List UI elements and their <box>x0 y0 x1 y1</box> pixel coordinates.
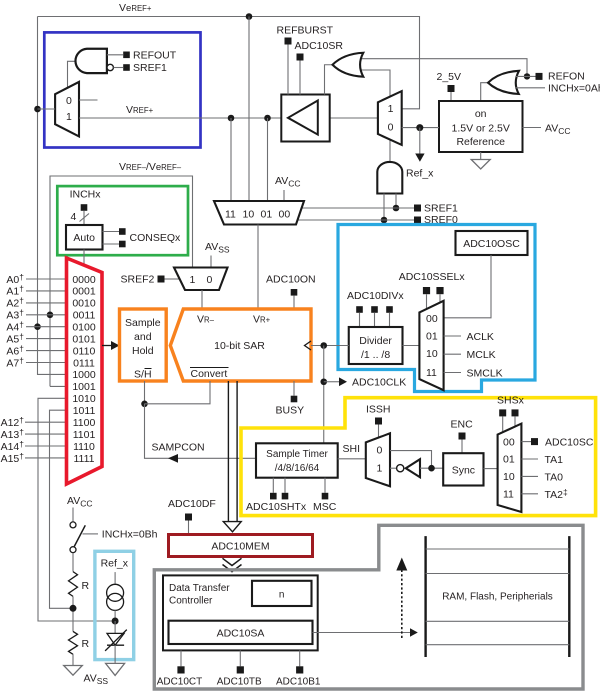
svg-text:SREF1: SREF1 <box>133 62 167 74</box>
pin SREF2 <box>121 274 181 286</box>
label A0-A7 channels <box>6 272 24 370</box>
wire channel 1010 to temp sensor node <box>38 398 115 621</box>
mux M6 clock source <box>419 301 443 390</box>
wire VR- to SAR <box>201 290 203 309</box>
label 4 bus width with slash <box>71 211 90 223</box>
pin SHSx <box>497 395 525 433</box>
wire AVSS stub <box>210 256 212 268</box>
pin CONSEQx <box>103 228 182 247</box>
wire TA1 input <box>521 454 563 466</box>
svg-text:Sample: Sample <box>125 317 161 329</box>
gate U3 OR (buffer enable, left facing) <box>325 53 528 163</box>
clock select box (cyan) <box>338 225 535 392</box>
svg-text:ADC10SC: ADC10SC <box>545 437 594 449</box>
wire channel 1011 to divider node <box>50 410 74 608</box>
wire Auto to input mux <box>83 250 85 267</box>
wire SHI line <box>338 443 366 459</box>
pin ADC10SHTx <box>246 478 307 513</box>
svg-text:1101: 1101 <box>73 429 96 441</box>
wire VeREF+ left rail down to channel 1000 <box>38 17 67 375</box>
pin ADC10SR <box>295 40 344 95</box>
svg-text:SMCLK: SMCLK <box>467 368 503 380</box>
svg-text:TA1: TA1 <box>545 454 564 466</box>
memory bus box (gray) <box>154 525 583 689</box>
wire S/H control stub <box>144 381 146 404</box>
svg-text:1011: 1011 <box>73 405 96 417</box>
node Ref_x tap <box>416 124 423 131</box>
wire rail to mux M1 input <box>38 108 56 110</box>
auto channel select box (green) <box>57 186 188 255</box>
pin ADC10DF <box>168 498 216 535</box>
svg-text:1000: 1000 <box>72 369 96 381</box>
wire VeREF+ top rail <box>38 17 420 109</box>
svg-text:REFON: REFON <box>548 71 585 83</box>
wire mux input 10 <box>248 17 250 202</box>
pin BUSY <box>276 381 305 417</box>
wire TA2 input <box>521 487 568 501</box>
node divider mid junction <box>70 605 77 612</box>
svg-text:Auto: Auto <box>73 232 95 244</box>
svg-text:4: 4 <box>71 211 77 223</box>
svg-text:01: 01 <box>261 209 273 221</box>
mux M7 ISSH invert select <box>366 433 390 486</box>
wire AND input stubs <box>384 194 396 221</box>
wire SAR clock line <box>311 345 349 347</box>
svg-text:ACLK: ACLK <box>467 331 494 343</box>
block ADC10MEM (dark red) <box>169 535 313 557</box>
svg-text:00: 00 <box>426 313 438 325</box>
inverter U6 <box>390 459 443 477</box>
pin 2_5V <box>437 71 462 101</box>
svg-text:ADC10B1: ADC10B1 <box>276 677 321 688</box>
svg-text:1110: 1110 <box>73 441 95 453</box>
pin ADC10DIVx <box>347 290 404 327</box>
wire divider middle <box>72 596 74 631</box>
svg-text:TA0: TA0 <box>545 471 564 483</box>
block sample timer <box>256 443 338 477</box>
svg-text:Ref_x: Ref_x <box>101 558 129 570</box>
wire switch to resistor <box>72 553 74 572</box>
buffer U2 reference buffer <box>281 95 378 142</box>
sample trigger box (yellow) <box>241 398 596 516</box>
pin ENC <box>451 419 474 454</box>
wire DTC dashed up arrow <box>396 558 407 639</box>
wire TA0 input <box>521 471 563 483</box>
svg-text:10: 10 <box>503 471 515 483</box>
svg-text:0100: 0100 <box>72 322 96 334</box>
pin SREF1 (inverted input) <box>107 62 167 74</box>
svg-text:0000: 0000 <box>72 274 96 286</box>
wire VREF-/VeREF- rail <box>50 176 193 386</box>
block data transfer controller <box>163 575 318 650</box>
svg-text:R: R <box>82 580 90 592</box>
svg-text:01: 01 <box>426 331 438 343</box>
svg-text:2_5V: 2_5V <box>437 71 462 83</box>
pin SREF1 <box>302 203 459 215</box>
node ADC10CLK junction <box>320 378 327 385</box>
wire mux M2 input0 from reference <box>402 127 439 129</box>
resistor R1 <box>69 572 90 597</box>
wire conversion data bus to ADC10MEM <box>223 381 241 532</box>
svg-text:R: R <box>82 638 90 650</box>
svg-text:ADC10MEM: ADC10MEM <box>211 541 269 553</box>
mux M8 sample trigger select <box>498 424 522 512</box>
wire A12-A15 input lines <box>25 422 67 458</box>
reference select box (blue) <box>44 32 200 147</box>
pin REFOUT <box>107 49 177 61</box>
node VREF+ to mux 11 <box>228 115 235 122</box>
svg-text:10-bit SAR: 10-bit SAR <box>214 340 265 352</box>
svg-text:10: 10 <box>426 348 438 360</box>
node S/H convert junction <box>141 401 148 408</box>
resistor R2 <box>69 631 90 654</box>
svg-text:0: 0 <box>207 274 213 286</box>
svg-text:INCHx=0Ah: INCHx=0Ah <box>548 83 600 95</box>
gate U5 AND (SREF decode, up facing) <box>377 162 402 194</box>
wire clock down to sample timer <box>323 346 325 444</box>
svg-text:Divider: Divider <box>359 335 392 347</box>
wire SMCLK input <box>444 368 503 380</box>
svg-text:on: on <box>475 108 487 120</box>
svg-text:Sample Timer: Sample Timer <box>266 449 328 460</box>
svg-text:VR+: VR+ <box>253 314 271 326</box>
svg-text:ADC10SHTx: ADC10SHTx <box>246 501 307 513</box>
svg-text:VREF–/VeREF–: VREF–/VeREF– <box>119 161 182 173</box>
node A3 tap on VREF- rail <box>47 312 54 319</box>
svg-text:1: 1 <box>66 111 72 123</box>
svg-text:ADC10TB: ADC10TB <box>217 677 262 688</box>
ground reference box <box>471 152 490 169</box>
svg-text:0101: 0101 <box>72 333 96 345</box>
svg-text:n: n <box>279 590 285 601</box>
pin REFBURST <box>277 25 334 95</box>
svg-text:0011: 0011 <box>73 310 96 322</box>
wire input mux to sample and hold with arrow <box>102 341 120 350</box>
wire AVCC stub to mux 00 <box>283 190 285 201</box>
svg-text:11: 11 <box>426 367 437 379</box>
wire MCLK input <box>444 349 496 361</box>
svg-text:VR–: VR– <box>197 314 215 326</box>
pin ADC10CT <box>157 650 203 687</box>
wire A0-A7 input lines <box>26 279 67 363</box>
block ADC10OSC <box>456 231 528 255</box>
svg-text:MCLK: MCLK <box>467 349 496 361</box>
ground temp sensor <box>106 645 125 675</box>
wire NAND output to mux select <box>68 61 76 88</box>
node SREF0 junction <box>381 217 388 224</box>
svg-text:00: 00 <box>503 436 515 448</box>
svg-text:1010: 1010 <box>72 393 96 405</box>
svg-text:ADC10SSELx: ADC10SSELx <box>399 271 466 283</box>
svg-text:S/H: S/H <box>134 369 152 381</box>
svg-text:1111: 1111 <box>73 453 94 465</box>
ground divider AVSS <box>64 654 83 675</box>
svg-text:1: 1 <box>377 463 383 475</box>
node VeREF+ tap to mux M1 <box>34 106 41 113</box>
node temp sensor junction <box>112 618 119 625</box>
wire ADC10SA to memory bus arrow <box>313 628 418 636</box>
block sample and hold (orange) <box>120 309 167 381</box>
block Auto <box>66 225 103 250</box>
block ADC10SA <box>169 621 313 644</box>
svg-text:0010: 0010 <box>72 298 96 310</box>
node inverter input junction <box>428 465 435 472</box>
svg-text:1: 1 <box>388 103 394 115</box>
node SREF1 junction <box>393 205 400 212</box>
wire mux M1 output 0 stub <box>79 99 98 101</box>
svg-text:SREF1: SREF1 <box>424 203 458 215</box>
svg-text:ADC10DF: ADC10DF <box>168 498 216 510</box>
svg-text:ADC10SR: ADC10SR <box>295 40 344 52</box>
svg-text:1001: 1001 <box>72 381 96 393</box>
svg-text:0001: 0001 <box>72 286 96 298</box>
pin MSC <box>313 478 337 513</box>
svg-text:ISSH: ISSH <box>366 404 391 416</box>
wire mux input 11 <box>230 118 232 201</box>
temp sensor cell box (light blue) <box>95 551 134 659</box>
mux M1 VREF+ select <box>55 82 79 136</box>
svg-text:Hold: Hold <box>132 345 154 357</box>
svg-text:Sync: Sync <box>452 465 475 477</box>
node VREF+ to mux 01 <box>264 115 271 122</box>
switch INCHx=0Bh <box>70 508 158 553</box>
svg-text:SAMPCON: SAMPCON <box>152 442 205 454</box>
svg-text:ADC10DIVx: ADC10DIVx <box>347 290 404 302</box>
svg-text:1100: 1100 <box>73 417 96 429</box>
pin ADC10SSELx <box>399 271 466 309</box>
svg-text:0: 0 <box>66 95 72 107</box>
node SAR clock junction <box>320 342 327 349</box>
pin SREF0 <box>298 214 459 226</box>
block sync <box>443 453 483 485</box>
memory bus rails <box>426 536 570 657</box>
svg-text:Reference: Reference <box>456 136 505 148</box>
current source I1 <box>107 572 124 621</box>
svg-text:REFOUT: REFOUT <box>133 49 177 61</box>
svg-text:/4/8/16/64: /4/8/16/64 <box>275 463 320 474</box>
svg-text:1.5V or 2.5V: 1.5V or 2.5V <box>452 123 510 135</box>
pin INCHx <box>70 189 102 226</box>
pin REFON <box>516 71 585 83</box>
svg-text:SREF2: SREF2 <box>121 274 155 286</box>
wire mux input 01 <box>267 118 269 201</box>
pin ADC10SC <box>521 437 593 449</box>
svg-text:11: 11 <box>503 489 514 501</box>
gate U1 AND (REFOUT/SREF1, left facing) <box>75 49 106 73</box>
wire ADC10MEM to DTC hollow arrow <box>223 558 242 571</box>
diode D1 temp sensor <box>105 621 127 651</box>
svg-text:ADC10CT: ADC10CT <box>157 677 203 688</box>
wire divider to clock mux <box>403 345 420 347</box>
wire sync to SHS mux <box>484 468 498 470</box>
block divider <box>349 327 403 364</box>
svg-text:VREF+: VREF+ <box>126 104 154 116</box>
svg-text:INCHx: INCHx <box>70 189 102 201</box>
wire VREF+ rail <box>79 117 281 119</box>
svg-text:1: 1 <box>190 274 196 286</box>
svg-text:0: 0 <box>388 122 394 134</box>
mux M4 VR- select <box>174 268 228 291</box>
gate U4 OR (REFON, left facing) <box>481 71 519 101</box>
mux M2 reference source <box>378 91 402 145</box>
svg-text:BUSY: BUSY <box>276 405 305 417</box>
wire SAMPCON with arrow <box>145 404 257 463</box>
node REFON junction <box>524 73 530 79</box>
svg-text:0111: 0111 <box>73 357 95 369</box>
svg-text:INCHx=0Bh: INCHx=0Bh <box>102 529 158 541</box>
wire INCHx=0Ah input <box>515 83 600 95</box>
svg-text:VeREF+: VeREF+ <box>119 2 152 14</box>
svg-text:SHI: SHI <box>343 443 361 455</box>
wire ADC10OSC to clock mux 00 <box>444 255 491 318</box>
svg-text:01: 01 <box>503 454 515 466</box>
node A4 tap on VeREF+ rail <box>34 323 41 330</box>
svg-text:Data Transfer: Data Transfer <box>169 583 230 594</box>
svg-text:/1 .. /8: /1 .. /8 <box>361 349 390 361</box>
mux M5 analog input channels (red) <box>67 258 103 484</box>
svg-text:ADC10OSC: ADC10OSC <box>463 238 520 250</box>
block 10-bit SAR (orange) <box>170 309 311 381</box>
pin ADC10B1 <box>276 650 321 687</box>
node VeREF+ junction <box>246 13 253 20</box>
wire Convert stub <box>145 381 211 404</box>
mux M3 reference rail select 11-00 <box>214 201 304 225</box>
svg-text:11: 11 <box>225 209 236 221</box>
svg-text:00: 00 <box>279 209 291 221</box>
wire ACLK input <box>444 331 494 343</box>
block n counter <box>252 581 312 606</box>
svg-text:Convert: Convert <box>191 368 228 380</box>
svg-text:CONSEQx: CONSEQx <box>130 232 182 244</box>
svg-text:Controller: Controller <box>169 596 213 607</box>
svg-text:0: 0 <box>377 445 383 457</box>
svg-text:REFBURST: REFBURST <box>277 25 334 37</box>
pin ADC10ON <box>266 274 316 310</box>
wire ADC10CLK output arrow <box>324 377 407 389</box>
svg-text:10: 10 <box>243 209 255 221</box>
svg-text:MSC: MSC <box>313 501 337 513</box>
svg-text:ENC: ENC <box>451 419 474 431</box>
wire AVCC supply <box>523 123 571 137</box>
svg-text:ADC10SA: ADC10SA <box>217 628 265 640</box>
pin ISSH <box>366 404 391 438</box>
svg-text:0110: 0110 <box>73 345 96 357</box>
svg-text:Ref_x: Ref_x <box>406 168 434 180</box>
svg-text:ADC10ON: ADC10ON <box>266 274 316 286</box>
wire VR+ to SAR <box>257 225 259 310</box>
svg-text:SHSx: SHSx <box>497 395 525 407</box>
block reference 1.5V/2.5V <box>439 101 523 152</box>
pin ADC10TB <box>217 650 262 687</box>
wire ISSH mux input 0 <box>390 451 432 469</box>
svg-text:RAM, Flash, Peripherials: RAM, Flash, Peripherials <box>442 592 553 603</box>
svg-text:ADC10CLK: ADC10CLK <box>352 377 406 389</box>
label A12-A15 channels <box>1 415 25 465</box>
svg-text:and: and <box>134 331 152 343</box>
wire Ref_x down arrow <box>406 128 434 180</box>
